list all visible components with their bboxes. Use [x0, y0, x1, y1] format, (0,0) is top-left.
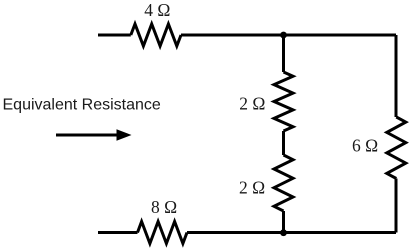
label 2 Ω (upper) — [239, 93, 265, 113]
label 2 Ω (lower) — [239, 178, 265, 198]
svg-text:Equivalent Resistance: Equivalent Resistance — [3, 96, 161, 113]
resistor R5 6-ohm (right) — [387, 117, 406, 179]
svg-text:2 Ω: 2 Ω — [239, 93, 265, 113]
node junction dot top — [280, 32, 287, 39]
wire middle branch upper — [282, 35, 285, 72]
wire right branch lower — [395, 179, 398, 233]
wire bottom-right segment — [187, 231, 396, 234]
svg-text:6 Ω: 6 Ω — [352, 136, 378, 156]
resistor R1 4-ohm (top) — [131, 24, 181, 46]
svg-text:4 Ω: 4 Ω — [144, 0, 170, 20]
wire bottom-left segment — [98, 231, 138, 234]
label 4 Ω — [144, 0, 170, 20]
text Equivalent Resistance — [3, 96, 161, 113]
label 6 Ω — [352, 136, 378, 156]
node junction dot bottom — [280, 229, 287, 236]
resistor R4 8-ohm (bottom) — [138, 222, 188, 244]
arrow (equivalent resistance direction) — [56, 129, 132, 141]
label 8 Ω — [151, 197, 177, 217]
resistor R3 2-ohm (middle lower) — [274, 155, 293, 211]
svg-text:8 Ω: 8 Ω — [151, 197, 177, 217]
resistor R2 2-ohm (middle upper) — [274, 72, 293, 131]
wire middle branch center — [282, 131, 285, 155]
wire top-left segment — [98, 34, 131, 37]
wire right branch upper — [395, 35, 398, 117]
wire middle branch lower — [282, 211, 285, 233]
wire top-right segment — [181, 34, 396, 37]
svg-text:2 Ω: 2 Ω — [239, 178, 265, 198]
